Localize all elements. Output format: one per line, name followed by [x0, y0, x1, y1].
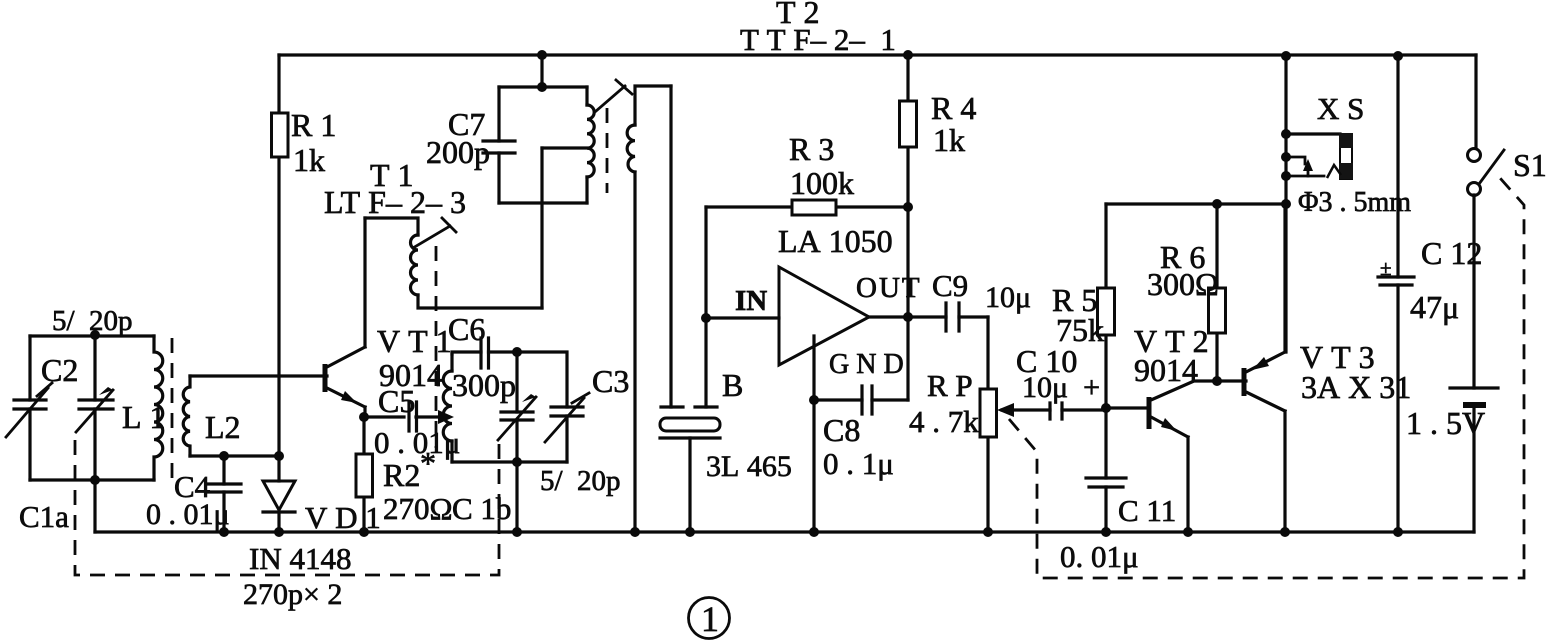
wire filter to IN node — [704, 207, 707, 407]
resistor R6 — [1209, 204, 1226, 381]
node XS contact 1 — [1281, 129, 1291, 139]
capacitor C4 — [208, 456, 241, 532]
svg-text:75k: 75k — [1056, 312, 1104, 348]
svg-text:B: B — [722, 367, 743, 403]
svg-text:0 . 01μ: 0 . 01μ — [146, 498, 230, 531]
node tank bottom — [90, 475, 100, 485]
svg-text:LT F– 2– 3: LT F– 2– 3 — [324, 184, 466, 220]
svg-text:C9: C9 — [932, 268, 968, 303]
svg-text:0 . 1μ: 0 . 1μ — [823, 446, 894, 481]
svg-text:C 1b: C 1b — [452, 491, 511, 526]
svg-text:L2: L2 — [205, 409, 241, 445]
node C11 ground — [1101, 527, 1111, 537]
potentiometer RP 4.7k — [980, 317, 1050, 532]
node IN — [701, 313, 711, 323]
wire T2 top feed — [540, 55, 543, 87]
node RP ground — [983, 527, 993, 537]
node C4 top — [219, 451, 229, 461]
switch S1 — [1468, 55, 1505, 196]
wire L2 bottom — [190, 454, 279, 457]
svg-text:C5: C5 — [378, 383, 415, 419]
wire top supply rail — [279, 53, 1476, 56]
wire tank bottom — [30, 478, 154, 481]
svg-text:T T F– 2– 1: T T F– 2– 1 — [740, 22, 896, 57]
svg-text:*: * — [420, 445, 436, 481]
capacitor C7 — [483, 87, 515, 203]
node top rail junction at XS — [1281, 51, 1291, 61]
node tank top — [90, 330, 100, 340]
svg-text:±: ± — [1380, 256, 1392, 280]
diode VD1 — [263, 456, 295, 532]
node VD1 ground — [274, 527, 284, 537]
node C4 ground — [219, 527, 229, 537]
capacitor C12 — [1378, 56, 1414, 532]
node VD1 top — [274, 451, 284, 461]
capacitor C3 (trimmer) — [517, 352, 589, 462]
wire T1 tuning arrow — [413, 218, 456, 248]
wire T2 primary tap — [542, 146, 587, 149]
inductor L1 — [154, 336, 163, 480]
svg-text:V T 1: V T 1 — [377, 323, 452, 359]
wire tank to ground — [515, 462, 518, 532]
node tank ground — [512, 527, 522, 537]
op-amp U1 LA1050 triangle — [779, 267, 869, 365]
node R3/R4 junction — [903, 202, 913, 212]
svg-text:R2: R2 — [383, 457, 420, 493]
resistor R4 — [900, 55, 917, 400]
node R6 top — [1212, 199, 1222, 209]
node filter ground — [685, 527, 695, 537]
svg-text:C6: C6 — [448, 311, 485, 347]
transformer T1 primary winding — [365, 218, 542, 308]
svg-text:10μ: 10μ — [985, 281, 1031, 314]
transistor VT3 (3AX31 PNP) — [1244, 204, 1285, 532]
svg-text:G N D: G N D — [829, 349, 904, 380]
wire earphone section enclosure (dashed) — [1009, 178, 1524, 578]
svg-text:9014: 9014 — [1134, 352, 1198, 388]
transformer T2 secondary winding — [627, 86, 671, 532]
wire tank top — [30, 334, 154, 337]
svg-text:3L 465: 3L 465 — [706, 450, 792, 483]
node GND pin — [809, 395, 819, 405]
transformer T2 primary winding — [587, 87, 594, 203]
svg-text:V D 1: V D 1 — [305, 500, 381, 535]
capacitor C11 — [1086, 408, 1126, 532]
wire tank bottom C1b — [452, 460, 567, 463]
svg-text:300Ω: 300Ω — [1147, 266, 1219, 302]
svg-text:4 . 7k: 4 . 7k — [909, 404, 979, 439]
node VT2 base junction — [1101, 403, 1111, 413]
wire T2 primary bottom — [499, 201, 587, 204]
svg-text:R 1: R 1 — [291, 107, 336, 143]
capacitor C6 — [452, 338, 517, 368]
battery GB 1.5V — [1450, 195, 1498, 532]
svg-text:47μ: 47μ — [1410, 289, 1459, 325]
resistor R3 — [706, 200, 908, 215]
wire OUT — [869, 315, 988, 318]
capacitor C5 — [364, 402, 454, 431]
capacitor C9 — [946, 303, 959, 331]
svg-text:C 11: C 11 — [1118, 493, 1176, 528]
wire GND pin — [812, 336, 815, 400]
wire XS branch — [1284, 56, 1287, 352]
svg-text:IN: IN — [735, 285, 767, 317]
svg-text:C1a: C1a — [19, 499, 69, 534]
svg-text:270Ω: 270Ω — [383, 491, 453, 526]
node XS contact 2 — [1281, 152, 1291, 162]
svg-text:R 4: R 4 — [931, 90, 976, 126]
node T2 top — [537, 82, 547, 92]
node XS contact 3 — [1281, 171, 1291, 181]
node C1b bottom — [512, 457, 522, 467]
capacitor C1b (gang section b) — [498, 352, 536, 462]
node XS rail junction — [1281, 199, 1291, 209]
node top rail junction at C12 — [1393, 51, 1403, 61]
wire R5/R6 top rail — [1106, 202, 1286, 205]
ceramic filter B 3L465 — [660, 407, 720, 532]
svg-text:1 . 5V: 1 . 5V — [1406, 405, 1485, 441]
svg-text:OUT: OUT — [856, 272, 922, 304]
inductor L2 — [183, 376, 190, 456]
svg-text:1k: 1k — [293, 142, 325, 178]
svg-text:300p: 300p — [452, 367, 516, 403]
node OUT — [903, 312, 913, 322]
svg-text:R 3: R 3 — [789, 131, 834, 167]
capacitor C10 — [1050, 403, 1106, 419]
wire T1 bottom to T2 tap — [540, 148, 543, 308]
node C8 ground — [809, 527, 819, 537]
wire IN — [706, 316, 779, 319]
svg-text:270p× 2: 270p× 2 — [243, 578, 342, 611]
jack XS (3.5mm socket) — [1286, 133, 1353, 179]
wire ground rail left drop — [93, 480, 96, 532]
wire ground rail — [95, 530, 1474, 533]
svg-text:5/ 20p: 5/ 20p — [540, 465, 621, 497]
svg-text:L 1: L 1 — [122, 399, 166, 435]
node VT1 emitter — [359, 412, 369, 422]
wire ferrite core L1-L2 (dashed) — [171, 338, 174, 481]
svg-text:Φ3 . 5mm: Φ3 . 5mm — [1298, 187, 1411, 218]
wire tuning gang coupling (dashed, C1a-C1b) — [75, 434, 499, 575]
svg-text:R P: R P — [927, 368, 973, 403]
resistor R5 — [1098, 204, 1115, 408]
node VT2 emitter ground — [1183, 527, 1193, 537]
node T2 secondary ground — [630, 527, 640, 537]
svg-text:IN 4148: IN 4148 — [249, 541, 351, 576]
wire T2 tuning arrow — [596, 80, 632, 111]
capacitor C1a (gang section a) — [76, 335, 113, 480]
transistor VT1 (9014 NPN) — [325, 218, 365, 417]
svg-text:LA 1050: LA 1050 — [778, 223, 893, 259]
svg-text:1: 1 — [701, 599, 719, 639]
transformer T1 secondary winding — [443, 354, 452, 462]
wire L2 top to VT1 base — [190, 374, 327, 377]
wire T2 secondary to filter — [669, 86, 672, 407]
svg-text:10μ +: 10μ + — [1022, 371, 1100, 404]
wire T1 core (dashed) — [435, 246, 438, 448]
node R2 ground — [359, 527, 369, 537]
capacitor C2 (trimmer) — [6, 336, 52, 480]
svg-text:1k: 1k — [933, 122, 965, 158]
svg-text:C2: C2 — [41, 352, 78, 388]
transistor VT2 (9014 NPN) — [1106, 381, 1246, 532]
wire T2 core (dashed) — [606, 108, 609, 193]
node top rail junction at T2 — [537, 50, 547, 60]
wire T2 primary top — [499, 85, 587, 88]
svg-text:S1: S1 — [1513, 147, 1547, 183]
svg-text:100k: 100k — [790, 165, 854, 201]
wire GND pin to ground — [812, 400, 815, 532]
svg-text:C3: C3 — [592, 363, 629, 399]
svg-text:C8: C8 — [823, 412, 860, 448]
svg-text:200p: 200p — [426, 134, 490, 170]
resistor R2 — [356, 417, 373, 532]
node top rail junction at R4 — [903, 50, 913, 60]
svg-text:3A X 31: 3A X 31 — [1301, 369, 1411, 405]
svg-text:0 . 01μ: 0 . 01μ — [374, 425, 460, 460]
node C12 ground — [1393, 527, 1403, 537]
capacitor C8 — [814, 386, 908, 414]
node VT3 collector ground — [1280, 527, 1290, 537]
svg-text:0. 01μ: 0. 01μ — [1060, 539, 1139, 574]
node figure number mark — [689, 598, 730, 640]
resistor R1 — [272, 55, 289, 456]
svg-text:X S: X S — [1317, 91, 1364, 126]
node C1b top — [512, 347, 522, 357]
node VT2 collector / R6 — [1212, 376, 1222, 386]
